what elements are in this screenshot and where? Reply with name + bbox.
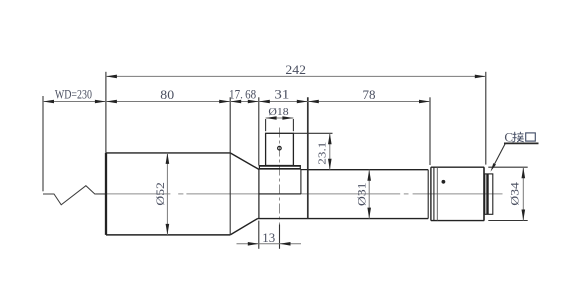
svg-text:23.1: 23.1 <box>316 142 328 165</box>
svg-text:Ø34: Ø34 <box>509 182 521 206</box>
leader arrow C-mount <box>491 163 496 172</box>
dim 23.1 <box>329 133 331 169</box>
node ext 13 left <box>258 221 260 249</box>
node ext 78 right <box>429 97 431 165</box>
neck block <box>258 169 260 218</box>
node ext phi18 right <box>292 119 294 131</box>
dim phi34 arrows <box>522 167 526 178</box>
node ext 31/78 thick, doubles as neck right edge <box>307 97 309 218</box>
svg-text:WD=230: WD=230 <box>55 88 92 102</box>
dim phi52 <box>166 153 168 235</box>
dimension extension lines <box>106 72 528 249</box>
dim 17.68 arrows <box>230 100 241 104</box>
node ext phi34 top <box>488 166 527 168</box>
cone transition <box>230 153 259 170</box>
arrowheads <box>43 75 525 246</box>
svg-text:17. 68: 17. 68 <box>229 88 256 102</box>
dim 31 arrows <box>259 100 270 104</box>
node ext 17.68/31 <box>258 97 260 165</box>
svg-text:C: C <box>504 130 513 145</box>
C-mount stub <box>485 174 493 214</box>
svg-text:Ø31: Ø31 <box>357 182 369 206</box>
hanzi kou (mouth/port) drawn as strokes <box>526 133 536 141</box>
object plane line <box>42 96 44 191</box>
wire: WD horizontal with break zigzag <box>43 186 106 205</box>
svg-text:31: 31 <box>274 88 289 102</box>
node ext 13 right (solid over axis) <box>279 225 281 249</box>
dim phi34 <box>522 167 524 220</box>
dim 242 arrows <box>106 75 117 79</box>
set screw on knob <box>278 146 282 150</box>
node ext phi18 left <box>265 119 267 131</box>
dimension lines <box>43 76 523 243</box>
front cylinder phi52 <box>105 153 107 235</box>
dimension texts <box>55 63 521 245</box>
dim 80 <box>106 101 230 103</box>
dim 13 <box>237 243 302 245</box>
dim 13 arrows outside <box>248 242 259 246</box>
node ext 80 / 17.68 + cylinder right edge <box>229 97 231 235</box>
dim 23.1 arrows <box>328 133 332 144</box>
svg-text:80: 80 <box>160 88 174 102</box>
node ext 23.1 top <box>293 132 332 134</box>
node ext 242 right <box>485 72 487 165</box>
dim 80 arrows <box>106 100 117 104</box>
collar under knob <box>259 165 301 167</box>
dim phi18 arrows <box>266 116 277 120</box>
node ext 242 left <box>105 72 107 153</box>
dim phi31 arrows <box>367 170 371 181</box>
svg-text:13: 13 <box>262 231 275 245</box>
screw dot on ring <box>442 180 446 184</box>
dim WD=230 <box>43 101 106 103</box>
barrel phi31 <box>308 169 428 171</box>
lens body outline <box>106 133 493 235</box>
dim phi18 <box>266 117 294 119</box>
optical axis centerline <box>96 193 503 195</box>
inner box of knob housing <box>300 169 302 194</box>
dim 31 <box>259 101 308 103</box>
dim 242 <box>106 75 486 77</box>
knob vertical centerline <box>279 128 281 249</box>
svg-text:242: 242 <box>285 63 306 77</box>
dim WD arrows <box>43 100 54 104</box>
node ext phi34 bottom <box>488 220 527 222</box>
dim 78 arrows <box>308 100 319 104</box>
dim phi31 <box>368 170 370 219</box>
barrel end face <box>427 170 429 219</box>
knob phi18 <box>266 133 294 165</box>
svg-text:Ø52: Ø52 <box>155 182 167 206</box>
leader line C-mount <box>494 143 505 164</box>
dim 17.68 <box>230 101 259 103</box>
svg-text:78: 78 <box>363 88 376 102</box>
dim 78 <box>308 101 430 103</box>
dim phi52 arrows <box>166 153 170 164</box>
hanzi jie (interface) drawn as strokes <box>512 132 523 142</box>
svg-text:Ø18: Ø18 <box>268 106 289 118</box>
rear ring phi34 <box>430 167 432 220</box>
